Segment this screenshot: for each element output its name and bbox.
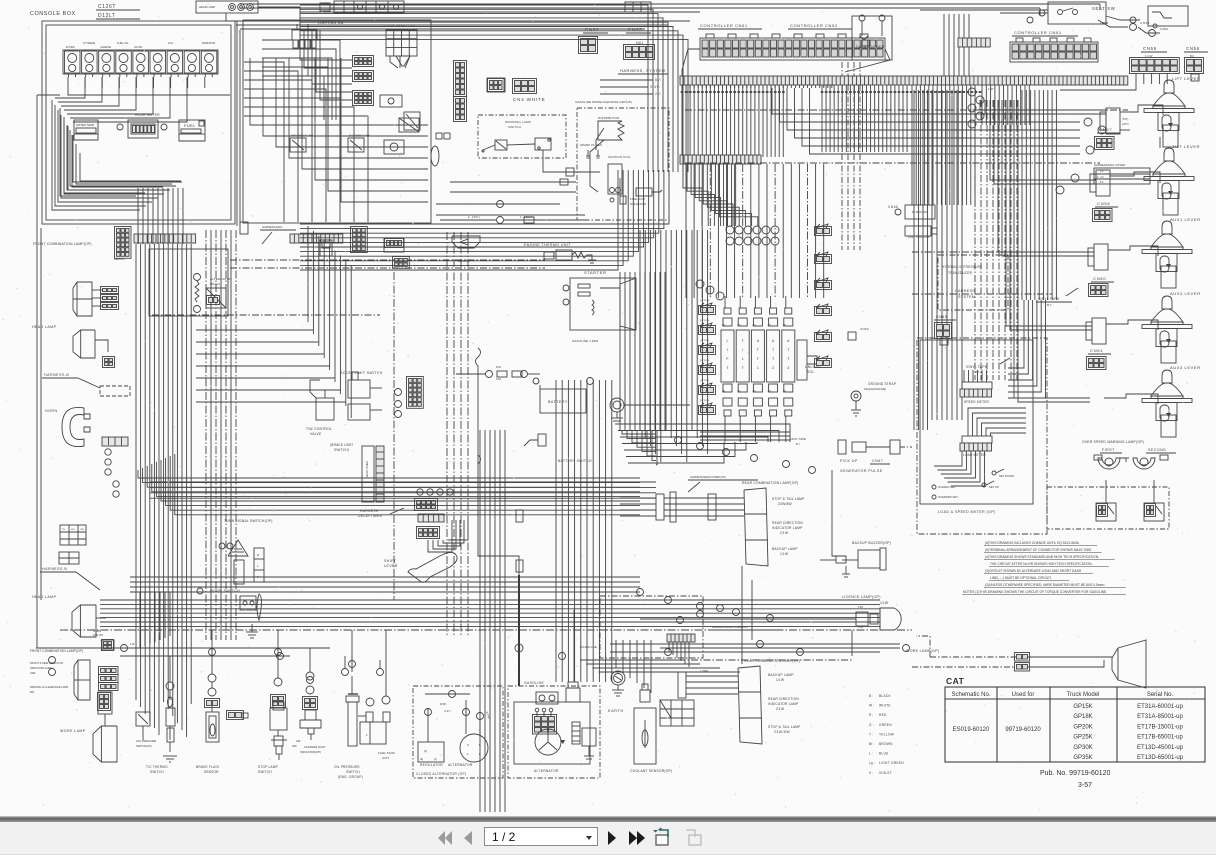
closed alternator dashed box	[413, 686, 503, 778]
svg-text:(ENG. GROUP): (ENG. GROUP)	[338, 775, 363, 779]
connector on wire	[566, 168, 574, 176]
svg-text:2: 2	[772, 366, 774, 370]
svg-text:WORKING LAMP: WORKING LAMP	[505, 120, 531, 124]
scattered circled wire labels centre	[675, 437, 682, 444]
wire stubs below console to left bundle	[137, 226, 139, 244]
earth symbol	[611, 671, 625, 685]
dist-coil wire	[590, 140, 604, 192]
vertical drops to bottom components	[169, 656, 171, 682]
RLF box	[254, 548, 264, 582]
right controller connector block	[1010, 42, 1098, 62]
svg-text:Pub. No. 99719-60120: Pub. No. 99719-60120	[1040, 770, 1111, 777]
svg-text:LIGHTING SW: LIGHTING SW	[318, 21, 344, 25]
svg-text:BRAKE FLUID: BRAKE FLUID	[196, 765, 220, 769]
svg-text:WORK LAMP(OP): WORK LAMP(OP)	[906, 649, 939, 653]
console outgoing bundle	[137, 188, 139, 226]
console gauge row	[63, 50, 218, 74]
svg-text:(A): (A)	[722, 390, 725, 393]
svg-text:BLUE: BLUE	[879, 752, 889, 756]
svg-text:CHARGE: CHARGE	[100, 45, 111, 49]
head lamp symbol 1	[73, 330, 95, 358]
next page button	[606, 827, 618, 849]
bundle y222-270 continues: bends down at x306-352	[307, 226, 309, 322]
terminal F0	[194, 274, 201, 281]
svg-text:D12LT: D12LT	[98, 13, 116, 19]
dash-dot vertical x394	[393, 272, 395, 600]
flasher units	[380, 95, 402, 107]
front comb lamp symbol 2	[74, 660, 90, 700]
svg-text:GASOLINE MODELS(ENGINE GROUP): GASOLINE MODELS(ENGINE GROUP)	[575, 100, 632, 104]
svg-text:INDICATOR(OP): INDICATOR(OP)	[300, 750, 321, 754]
svg-text:LIGHT GREEN: LIGHT GREEN	[879, 761, 904, 765]
svg-text:SWITCH): SWITCH)	[334, 448, 349, 452]
lighting sw top symbol	[292, 30, 317, 40]
diode bridge	[533, 715, 557, 735]
aux plug 1	[1096, 170, 1110, 196]
svg-text:3-57: 3-57	[1078, 782, 1092, 789]
svg-text:SPEED METER: SPEED METER	[964, 400, 990, 404]
svg-text:PICK UP: PICK UP	[840, 459, 858, 463]
small relays row	[320, 240, 332, 256]
center vertical bundle below controllers	[639, 230, 641, 430]
pf mast sw	[905, 205, 935, 219]
horn symbol	[62, 407, 84, 446]
svg-text:LICENCE LAMP(OP): LICENCE LAMP(OP)	[842, 595, 881, 599]
svg-text:CLEANER DUST: CLEANER DUST	[304, 745, 326, 749]
svg-text:10W: 10W	[880, 601, 889, 605]
speed meter wire stubs up	[963, 370, 965, 382]
circled refs bottom	[49, 657, 56, 664]
svg-text:HARNESS,REAR COMBI.(OP): HARNESS,REAR COMBI.(OP)	[690, 475, 726, 479]
svg-text:0.5A: 0.5A	[496, 378, 501, 381]
aux2 wires	[1106, 320, 1158, 330]
svg-text:N: N	[467, 744, 469, 747]
svg-text:VINYL TAPE: VINYL TAPE	[790, 437, 806, 441]
controller terminal strip	[680, 76, 834, 85]
svg-text:RELAY TIMER: RELAY TIMER	[365, 461, 369, 478]
svg-text:UNIT: UNIT	[382, 756, 389, 760]
svg-text:W.0B: W.0B	[440, 703, 446, 706]
dash-dot column group	[841, 62, 843, 250]
nested fan below solenoids	[616, 424, 790, 442]
connector pair left of sol	[699, 406, 716, 415]
svg-text:REAR DIRECTION: REAR DIRECTION	[772, 521, 803, 525]
horizontal wires lighting->gasoline y180-215	[450, 181, 576, 183]
left connector grid top	[115, 227, 132, 259]
svg-text:F9(A)GASOLINE): F9(A)GASOLINE)	[864, 387, 886, 391]
svg-text:G :: G :	[869, 723, 874, 727]
svg-text:FRONT & SIDE DIRECTION: FRONT & SIDE DIRECTION	[30, 661, 63, 665]
svg-text:Y :: Y :	[869, 732, 873, 736]
svg-text:BROWN: BROWN	[879, 742, 893, 746]
rear lamp drops	[741, 566, 743, 664]
svg-text:Serial No.: Serial No.	[1147, 692, 1174, 698]
svg-text:23W: 23W	[30, 671, 36, 675]
svg-text:INDICATOR LAMP: INDICATOR LAMP	[768, 702, 799, 706]
lift lever wires	[1130, 105, 1163, 115]
svg-text:STOP LAMP: STOP LAMP	[258, 765, 278, 769]
turn sw contacts	[234, 560, 244, 584]
svg-text:LT.TRADE: LT.TRADE	[83, 41, 95, 45]
svg-text:GASOLINE: GASOLINE	[580, 645, 597, 649]
svg-text:WG: WG	[71, 529, 75, 531]
svg-text:L: L	[742, 357, 744, 361]
svg-text:FRONT COMBINATION LAMP(OP): FRONT COMBINATION LAMP(OP)	[33, 242, 92, 246]
wire labels row	[681, 91, 684, 93]
extra console inner wires	[60, 108, 136, 196]
connector pair right of sol	[815, 255, 832, 264]
svg-text:1.B?: 1.B?	[988, 87, 994, 91]
gasoline alt connector top	[536, 692, 558, 704]
nested corners top-center going left: wires from CN51 strip to left	[300, 5, 648, 172]
small strip near data logger right	[958, 38, 990, 47]
controller connector block	[700, 38, 885, 60]
CN55/56 wire stubs	[1135, 74, 1137, 84]
load & speed meter dash-dot outer box	[917, 338, 1047, 534]
connector CN4 WHITE	[513, 79, 537, 94]
head lamp symbol 2	[72, 605, 96, 637]
svg-text:CN56: CN56	[1186, 46, 1200, 51]
svg-text:W.TEM: W.TEM	[66, 45, 75, 49]
fuel cut solenoid	[636, 188, 652, 196]
wire code grid 2	[59, 552, 79, 564]
next view button (disabled)	[684, 827, 704, 849]
lighting connector stacks	[353, 56, 374, 67]
dense horizontal runs y577-592	[130, 576, 640, 578]
work lamp symbol left	[93, 726, 117, 762]
svg-text:8V: 8V	[1100, 181, 1104, 184]
svg-text:VINYL TAPE: VINYL TAPE	[966, 365, 988, 369]
gasoline models dashed box	[577, 108, 669, 220]
svg-text:1.25GL: 1.25GL	[1160, 27, 1169, 31]
pdf navigation toolbar	[0, 822, 1216, 855]
svg-text:GP25K: GP25K	[1073, 735, 1092, 741]
circled label column x976	[968, 88, 976, 96]
svg-text:YELLOW: YELLOW	[879, 732, 894, 736]
svg-text:1.25RB: 1.25RB	[700, 670, 708, 673]
dashed wire to work lamp	[930, 656, 1016, 658]
svg-text:10W: 10W	[780, 552, 789, 556]
svg-text:NOTES (1)THIS DRAWING SHOWS TH: NOTES (1)THIS DRAWING SHOWS THE CIRCUIT …	[963, 590, 1107, 594]
svg-text:GP35K: GP35K	[1073, 755, 1092, 761]
svg-text:CN61: CN61	[1090, 348, 1103, 353]
svg-text:23W: 23W	[780, 531, 789, 535]
diode D1006	[452, 236, 480, 248]
svg-text:HARNESS.B: HARNESS.B	[42, 567, 67, 571]
svg-text:(TILT): (TILT)	[1122, 118, 1129, 121]
svg-text:HARNESS: HARNESS	[360, 509, 379, 513]
connector pair right of sol	[815, 359, 832, 368]
svg-text:23W/8W: 23W/8W	[778, 502, 793, 506]
harness near sol	[724, 296, 726, 308]
svg-text:L: L	[727, 339, 729, 343]
battery	[540, 389, 586, 413]
svg-text:SET DOWN: SET DOWN	[999, 474, 1014, 478]
svg-text:ALTERNATOR: ALTERNATOR	[534, 769, 559, 773]
svg-text:HARNESS,REAR COMBI.(OP): HARNESS,REAR COMBI.(OP)	[712, 625, 748, 629]
console gauge leads	[67, 77, 69, 88]
aux plug 3	[1092, 318, 1106, 344]
svg-text:BLACK: BLACK	[879, 694, 892, 698]
svg-text:RADIATOR: RADIATOR	[202, 41, 215, 45]
spark plug symbols	[587, 150, 589, 156]
svg-text:WORK LAMP: WORK LAMP	[60, 729, 86, 733]
solenoid ATT2	[767, 330, 780, 382]
svg-text:GENERATOR PULSE: GENERATOR PULSE	[840, 469, 883, 473]
gasoline drop wires	[518, 575, 520, 686]
svg-text:SWITCH: SWITCH	[346, 770, 360, 774]
svg-text:SYSTEM: SYSTEM	[958, 295, 975, 299]
wires to levers	[980, 100, 1106, 110]
svg-text:CN54: CN54	[1140, 21, 1150, 25]
lamp2 wires	[686, 675, 738, 677]
second warning lamp horseshoe	[1133, 458, 1155, 469]
svg-text:10W: 10W	[776, 678, 785, 682]
left small circled terminals	[105, 449, 111, 455]
svg-text:CONTROLLER CN51: CONTROLLER CN51	[1014, 30, 1062, 35]
svg-text:F: F	[366, 734, 368, 737]
svg-text:Schematic No.: Schematic No.	[951, 692, 990, 698]
solenoid ATT3	[782, 330, 795, 382]
right top vertical feed bundle	[943, 14, 945, 76]
svg-text:T/C THERMO: T/C THERMO	[146, 765, 168, 769]
svg-text:HARNESS.B: HARNESS.B	[44, 373, 69, 377]
data logger plug	[860, 36, 868, 40]
svg-text:FUEL TANK: FUEL TANK	[378, 751, 395, 755]
separator line above toolbar	[0, 816, 1216, 822]
FLW fuse row left of battery	[486, 371, 493, 378]
right vertical bundle x916	[913, 90, 915, 430]
top bus console to controllers	[236, 20, 690, 22]
right controller strip	[820, 76, 1128, 85]
svg-text:HARNESS.ENG: HARNESS.ENG	[262, 225, 282, 229]
svg-text:TRANSDUCER: TRANSDUCER	[948, 271, 973, 275]
wire code grid mid-left	[60, 525, 86, 545]
centre bundle bends right into rear lamp connectors	[622, 430, 656, 434]
speed meter strip	[962, 382, 992, 389]
svg-text:HEAD REARFOG LAMP: HEAD REARFOG LAMP	[291, 134, 314, 137]
svg-text:(A): (A)	[752, 390, 755, 393]
svg-text:LEVER: LEVER	[384, 564, 398, 568]
svg-text:OIL PRESSURE: OIL PRESSURE	[334, 765, 360, 769]
svg-text:CN4 WHITE: CN4 WHITE	[513, 97, 545, 102]
svg-text:ALTERNATOR: ALTERNATOR	[210, 277, 232, 281]
right vertical bundle solid	[931, 90, 933, 420]
previous page button (disabled)	[462, 827, 474, 849]
svg-text:THE CIRCUIT AFTER No RR SHOWS: THE CIRCUIT AFTER No RR SHOWS HIGH TECH …	[990, 562, 1092, 566]
relay timer strip	[362, 446, 374, 502]
svg-text:STARTER: STARTER	[584, 270, 607, 275]
dashed optional box lower rear-combi	[600, 596, 703, 658]
distributor symbol	[598, 121, 624, 140]
svg-text:VALVE: VALVE	[310, 432, 322, 436]
dense mid vertical bundle (x480-620)	[555, 380, 557, 682]
gasoline alternator inner box	[514, 702, 590, 764]
below sol bundle	[700, 431, 790, 433]
closed alt wires	[425, 693, 470, 695]
water temp gauge	[74, 120, 98, 134]
svg-text:GLOW: GLOW	[134, 45, 142, 49]
mid connector column x415	[407, 377, 424, 409]
svg-text:PARKING & CLEARANCE LAMP: PARKING & CLEARANCE LAMP	[30, 685, 69, 689]
page number combo box	[484, 827, 598, 846]
svg-text:FLW: FLW	[496, 366, 502, 369]
svg-text:HORN: HORN	[45, 409, 58, 413]
load meter wires nest	[934, 451, 962, 466]
svg-text:FRONT COMBINATION LAMP(OP): FRONT COMBINATION LAMP(OP)	[30, 649, 83, 653]
svg-text:W :: W :	[869, 704, 874, 708]
svg-text:GROUND STRAP: GROUND STRAP	[868, 382, 896, 386]
connector pair	[436, 133, 442, 139]
svg-text:OVERSPD SET: OVERSPD SET	[938, 495, 958, 499]
svg-text:ET17B-65001-up: ET17B-65001-up	[1137, 735, 1183, 741]
svg-text:(L.3Y): (L.3Y)	[444, 710, 451, 713]
svg-text:(B): (B)	[768, 324, 771, 327]
svg-text:BATTERY: BATTERY	[548, 400, 568, 404]
svg-text:HARNESS, SYSTEM: HARNESS, SYSTEM	[620, 68, 666, 73]
svg-text:23W: 23W	[776, 707, 785, 711]
svg-text:SHIFT: SHIFT	[384, 559, 397, 563]
turn triangle	[228, 540, 248, 556]
dist wires	[596, 128, 604, 150]
last page button	[627, 827, 647, 849]
connector pair right of sol	[815, 333, 832, 342]
svg-text:LPG PRESSURE: LPG PRESSURE	[136, 739, 156, 743]
svg-text:1: 1	[757, 366, 759, 370]
svg-text:(4)THIS DRAWING SHOWS STANDARD: (4)THIS DRAWING SHOWS STANDARD AND HIGH …	[985, 555, 1099, 559]
connector strip y634	[667, 634, 695, 642]
svg-text:3.4V: 3.4V	[1097, 176, 1104, 179]
bundle below controller block (x684-830)	[685, 164, 687, 298]
svg-text:T/W CONTROL: T/W CONTROL	[306, 427, 332, 431]
svg-text:STOP & TAIL LAMP: STOP & TAIL LAMP	[772, 497, 805, 501]
svg-text:FUEL OIL: FUEL OIL	[117, 41, 129, 45]
console box outline	[42, 21, 235, 224]
svg-text:(B): (B)	[783, 324, 786, 327]
connector pair left of sol	[699, 326, 716, 335]
wires from top boxes	[258, 7, 300, 30]
svg-text:RED: RED	[879, 713, 887, 717]
tilt lever wires	[1110, 172, 1160, 183]
console inner wiring	[52, 100, 140, 210]
stair from second strip to solenoid terminals	[683, 164, 702, 226]
right strip bundles	[821, 85, 823, 152]
svg-text:LIFT LEVER: LIFT LEVER	[1172, 76, 1200, 81]
lamp1 wires	[664, 497, 744, 499]
svg-text:CAT: CAT	[946, 676, 965, 686]
svg-text:(A): (A)	[737, 390, 740, 393]
work lamp right dashed feed	[912, 666, 1014, 668]
seat belt sw symbol	[1148, 6, 1188, 26]
lighting wires	[300, 30, 352, 60]
svg-text:0.5B: 0.5B	[858, 626, 863, 629]
ground circle left of sol	[610, 398, 624, 412]
svg-text:ALTERNATOR: ALTERNATOR	[448, 763, 473, 767]
seat-belt feed wires top right	[1098, 20, 1128, 27]
svg-text:R :: R :	[869, 713, 873, 717]
svg-text:(A): (A)	[768, 390, 771, 393]
horizontal dash-dot bus y630	[60, 629, 912, 631]
svg-text:INDICATOR LAMP: INDICATOR LAMP	[30, 666, 52, 670]
dash-dot verticals x445-470	[446, 232, 448, 636]
oval fuse	[431, 146, 439, 166]
wire labels row mid low	[677, 617, 684, 624]
tw valve symbol	[316, 398, 334, 420]
svg-text:WATER TEMP: WATER TEMP	[76, 123, 94, 127]
svg-text:CN65: CN65	[936, 315, 947, 319]
svg-text:HARNESS,ENG COVER: HARNESS,ENG COVER	[1094, 163, 1125, 167]
connector pair right of sol	[815, 227, 832, 236]
svg-text:Br :: Br :	[869, 742, 874, 746]
front combination lamp symbol	[73, 282, 92, 316]
svg-text:1W: 1W	[130, 642, 135, 646]
gasoline alternator dashed box	[508, 686, 600, 778]
nested corners speed->load meter	[968, 408, 1026, 436]
svg-text:SWITCH(OP): SWITCH(OP)	[136, 744, 152, 748]
svg-text:CN67: CN67	[872, 459, 883, 463]
wire from working lamp sw	[543, 150, 600, 172]
rotor circle	[535, 729, 561, 755]
svg-text:1.25FL: 1.25FL	[468, 215, 481, 219]
bundle from right controller to levers	[1021, 90, 1023, 300]
svg-text:Truck Model: Truck Model	[1067, 692, 1100, 698]
svg-text:(B): (B)	[737, 324, 740, 327]
head lamp relay box top	[196, 1, 258, 13]
svg-text:GASOLINE: GASOLINE	[524, 681, 544, 685]
connector pair left of sol	[699, 386, 716, 395]
aux plug 2	[1094, 244, 1108, 270]
small fuse box above CN63	[625, 2, 651, 12]
funnel merge symbol	[396, 56, 410, 66]
aux1 wires	[1108, 246, 1158, 256]
nested corners from controller bending left at y222-270	[300, 170, 618, 270]
svg-text:HEAD LAMP: HEAD LAMP	[32, 325, 57, 329]
bundle bend into speed meter	[1008, 300, 1024, 368]
lever connector CN57 plug	[1106, 108, 1120, 134]
svg-text:BACKUP BUZZER(OP): BACKUP BUZZER(OP)	[852, 541, 891, 545]
svg-text:I: I	[742, 348, 743, 352]
svg-text:COOLANT SENSOR(OP): COOLANT SENSOR(OP)	[630, 769, 672, 773]
svg-text:VIOLET: VIOLET	[879, 771, 892, 775]
unload sol body	[797, 340, 807, 380]
working lamp switch dashed box	[478, 115, 566, 158]
svg-text:DISTRIBUTOR: DISTRIBUTOR	[598, 116, 620, 120]
svg-text:TURN SIGNAL SWITCH(OP): TURN SIGNAL SWITCH(OP)	[224, 519, 273, 523]
work lamp wire	[1028, 656, 1112, 658]
staircase bundle center-left down to horizontal runs	[138, 470, 640, 478]
aux3 wires	[1104, 394, 1158, 404]
circled terminals top of sol 2	[696, 280, 704, 288]
svg-text:ET13D-45001-up: ET13D-45001-up	[1137, 745, 1184, 751]
warning relay boxes	[1047, 487, 1169, 529]
stator coil	[572, 722, 580, 744]
svg-text:SEAT SW: SEAT SW	[1092, 6, 1115, 11]
x556 bundle bends right at bottom	[580, 659, 680, 661]
lighting box nested lattice	[250, 58, 428, 125]
regulator small	[582, 728, 596, 746]
connector pair left of sol	[699, 366, 716, 375]
right strip wire-label dashes	[821, 91, 824, 93]
table	[945, 687, 1205, 762]
wires joining right work lamp area	[660, 647, 900, 649]
svg-text:BY: BY	[1047, 303, 1052, 307]
svg-text:(A): (A)	[783, 390, 786, 393]
seat sw feed	[920, 9, 1048, 11]
svg-text:CN66: CN66	[888, 205, 899, 209]
headlamp connector	[103, 357, 115, 368]
starter slant edge	[620, 278, 636, 330]
horn connector strip	[102, 437, 128, 446]
